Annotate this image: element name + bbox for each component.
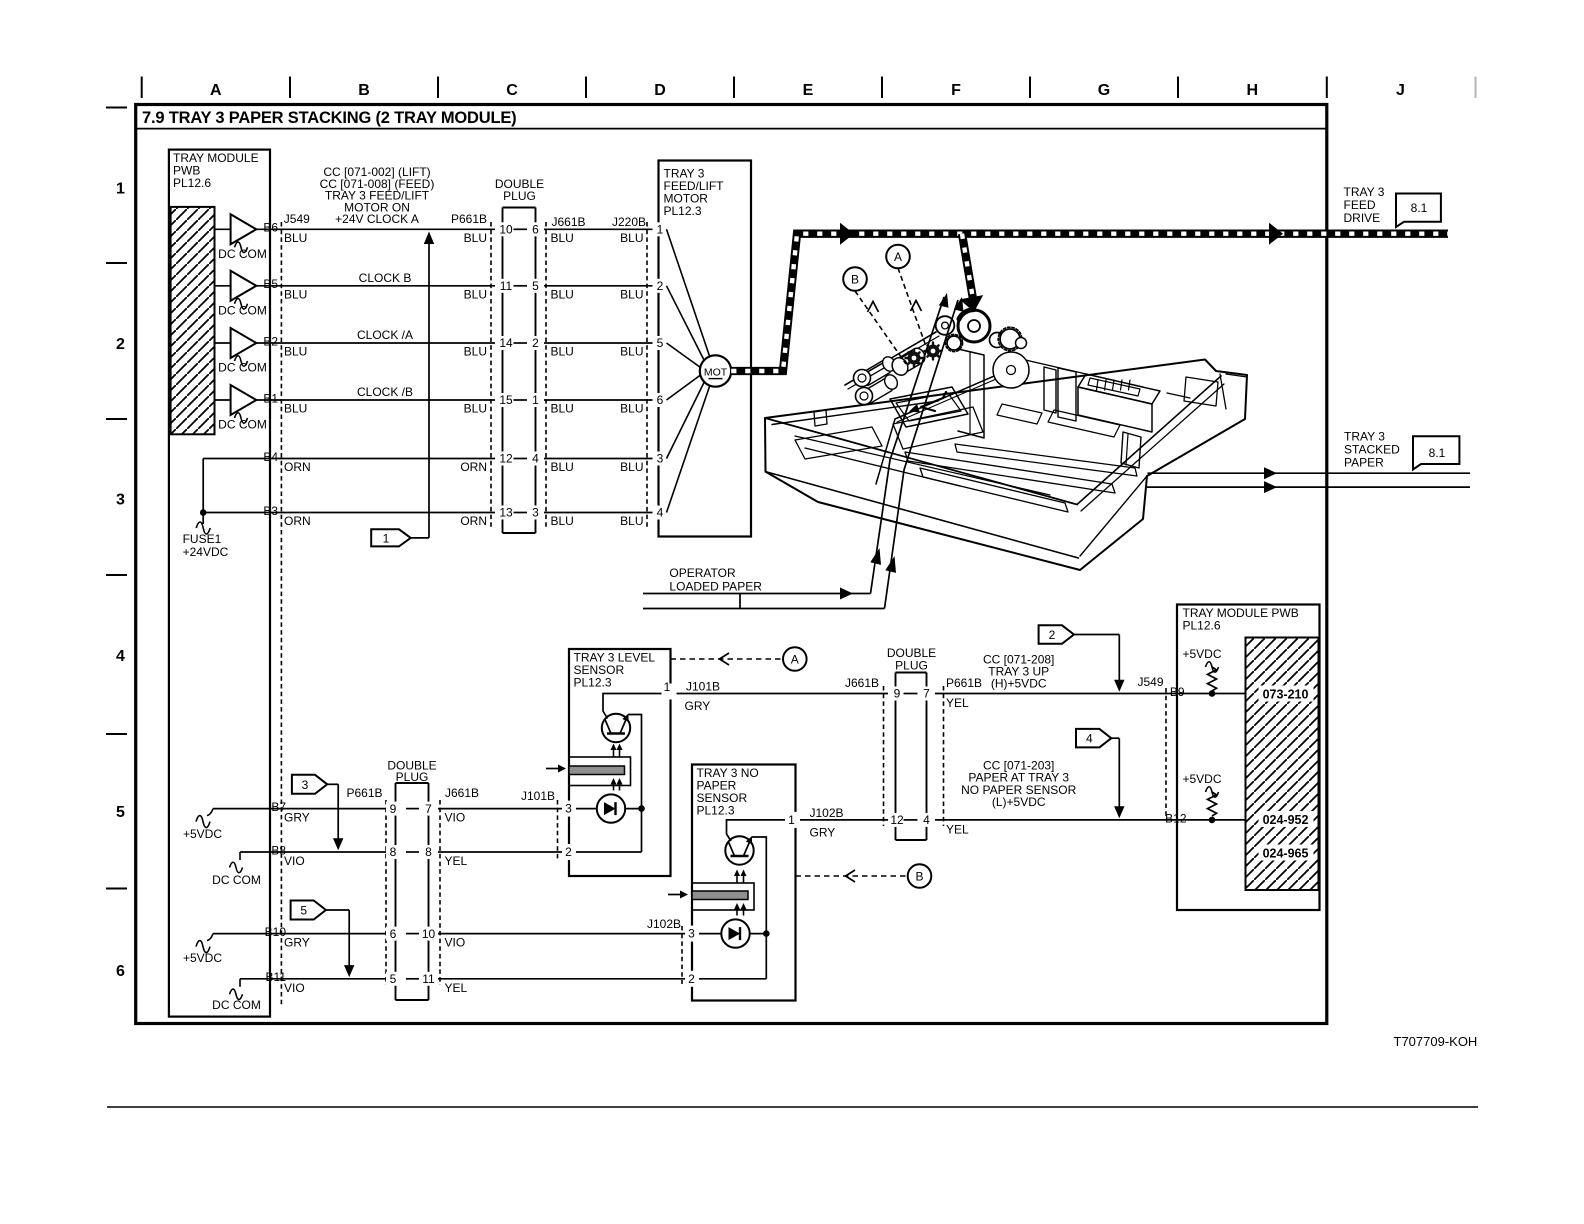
svg-text:ORN: ORN	[284, 460, 311, 474]
level sensor phototransistor	[602, 714, 630, 742]
svg-text:BLU: BLU	[551, 288, 574, 302]
title underline	[136, 128, 1327, 130]
floor back edge lines	[1008, 356, 1086, 374]
DC COM symbol under buffer B6	[235, 242, 248, 253]
hatched PWB area (right)	[1246, 638, 1319, 891]
svg-text:5: 5	[300, 904, 307, 918]
stacked paper arrows	[1264, 467, 1277, 479]
svg-text:+24VDC: +24VDC	[183, 545, 229, 559]
level sensor pin 2 internal wire	[569, 851, 642, 853]
fault code 073-210	[1259, 686, 1314, 702]
level sensor junction dot	[638, 805, 645, 812]
connector J102B dashed line (left)	[681, 926, 683, 984]
svg-text:B6: B6	[263, 221, 278, 235]
svg-text:2: 2	[657, 279, 664, 293]
floor pockets	[1048, 410, 1120, 437]
svg-text:2: 2	[1049, 628, 1056, 642]
svg-text:B1: B1	[263, 391, 278, 405]
svg-text:1: 1	[116, 181, 125, 198]
footer rule	[107, 1106, 1478, 1108]
svg-text:BLU: BLU	[620, 231, 643, 245]
svg-text:BLU: BLU	[464, 288, 487, 302]
double plug (upper)	[496, 210, 542, 531]
buffer amplifier driving B1	[215, 399, 231, 401]
connector J549 dashed line (left)	[280, 222, 282, 1006]
svg-text:BLU: BLU	[551, 514, 574, 528]
nudger roller 1	[854, 370, 871, 387]
DC COM symbol under buffer B1	[235, 413, 248, 424]
callout B circle at tray	[843, 267, 867, 291]
svg-text:5: 5	[116, 804, 125, 821]
svg-text:6: 6	[657, 393, 664, 407]
no paper sensor LED	[721, 919, 749, 947]
svg-text:YEL: YEL	[946, 696, 969, 710]
no paper sensor junction dot	[763, 930, 770, 937]
light arrows above bar (no paper sensor)	[736, 874, 738, 883]
double plug pins 8-8	[386, 845, 402, 859]
tray interior floor lines	[795, 436, 1050, 495]
svg-text:STACKED: STACKED	[1344, 443, 1400, 457]
svg-text:7: 7	[923, 687, 930, 701]
svg-text:3: 3	[116, 492, 125, 509]
belt arrowhead right	[1269, 223, 1283, 245]
junction dot at B3/fuse node	[200, 509, 207, 516]
svg-text:YEL: YEL	[946, 822, 969, 836]
gear train right	[990, 333, 1005, 348]
svg-text:GRY: GRY	[284, 936, 310, 950]
svg-text:DC COM: DC COM	[218, 418, 267, 432]
arrow from flag 3 down to B8 wire	[327, 783, 338, 785]
DC COM symbol at B11	[239, 979, 241, 987]
svg-text:ORN: ORN	[460, 514, 487, 528]
tray arrow plate	[890, 387, 968, 427]
svg-text:11: 11	[422, 972, 435, 986]
double plug pins 15-1	[495, 393, 516, 407]
arrow from flag 5 down to B11 wire	[326, 909, 349, 911]
svg-text:5: 5	[390, 972, 397, 986]
tray back rim inner lines	[772, 401, 938, 425]
motor pin 5	[653, 336, 668, 350]
svg-text:J549: J549	[1138, 675, 1164, 689]
svg-text:B3: B3	[263, 504, 278, 518]
svg-text:7: 7	[425, 802, 432, 816]
svg-text:LOADED PAPER: LOADED PAPER	[669, 580, 762, 594]
+5VDC source at B10	[207, 934, 213, 941]
svg-text:PL12.3: PL12.3	[697, 804, 735, 818]
tray 3 mechanical illustration	[765, 310, 1247, 570]
connector J661B dashed line (upper)	[545, 222, 547, 530]
arrow from flag 4 down to NO PAPER SENSOR wire	[1111, 737, 1119, 739]
level sensor pin numbers	[662, 684, 677, 700]
wire B11 DC COM to no-paper sensor pin 2	[240, 978, 692, 980]
svg-text:A: A	[894, 250, 902, 264]
svg-text:MOT: MOT	[704, 367, 728, 379]
double plug pins 12-4 (lower right)	[888, 813, 907, 827]
svg-text:VIO: VIO	[284, 981, 305, 995]
svg-text:YEL: YEL	[445, 854, 468, 868]
svg-text:6: 6	[116, 963, 125, 980]
svg-text:PLUG: PLUG	[895, 659, 928, 673]
support pillar under gears	[958, 349, 984, 438]
actuator arrow into level sensor	[546, 768, 559, 770]
flag box 8.1 feed drive	[1396, 194, 1441, 228]
tray front wall bottom edge	[766, 472, 1079, 558]
svg-text:BLU: BLU	[620, 345, 643, 359]
wire B3 net +24VDC	[203, 512, 658, 514]
light arrows below bar (no paper sensor)	[736, 907, 738, 916]
wire link B4-B3 to FUSE1	[202, 459, 204, 525]
svg-text:ORN: ORN	[460, 460, 487, 474]
svg-text:+5VDC: +5VDC	[1182, 647, 1221, 661]
svg-text:TRAY 3: TRAY 3	[1344, 185, 1385, 199]
callout B circle at no paper sensor	[908, 864, 932, 888]
feed roller shaft	[845, 332, 936, 385]
svg-text:P661B: P661B	[451, 212, 487, 226]
wire B5 net CLOCK B	[256, 285, 659, 287]
svg-text:8: 8	[390, 845, 397, 859]
tray floor racetrack channel	[893, 407, 983, 449]
svg-text:8.1: 8.1	[1411, 201, 1428, 215]
svg-text:1: 1	[657, 223, 664, 237]
svg-text:B: B	[915, 870, 923, 884]
svg-text:J101B: J101B	[686, 680, 720, 694]
svg-text:8: 8	[425, 845, 432, 859]
svg-text:ORN: ORN	[284, 514, 311, 528]
svg-text:+5VDC: +5VDC	[183, 827, 222, 841]
svg-text:1: 1	[532, 393, 539, 407]
svg-text:FUSE1: FUSE1	[183, 532, 222, 546]
svg-text:4: 4	[532, 452, 539, 466]
double plug pins 9-7 (lower right)	[888, 687, 907, 701]
wire B4 net +24VDC	[203, 458, 658, 460]
svg-text:8.1: 8.1	[1429, 446, 1446, 460]
no paper sensor pin 3 internal wire	[692, 933, 721, 935]
wire B8 DC COM to level sensor pin 2	[240, 851, 569, 853]
svg-text:J220B: J220B	[612, 215, 646, 229]
tray 3 level sensor box PL12.3	[569, 649, 671, 876]
double plug pins 13-3	[495, 506, 516, 520]
tray 3 stacked paper path lines	[1148, 472, 1471, 474]
svg-text:6: 6	[390, 927, 397, 941]
feed clutch gear (belt target)	[958, 310, 990, 342]
wire B2 net CLOCK /A	[256, 342, 659, 344]
svg-text:CLOCK B: CLOCK B	[359, 271, 412, 285]
motor pin 4	[653, 506, 668, 520]
double plug (lower left)	[389, 786, 435, 998]
tray module PWB box PL12.6 (right)	[1177, 605, 1320, 911]
svg-text:B2: B2	[263, 334, 278, 348]
flag 4 reference tag	[1076, 729, 1111, 748]
DC COM symbol under buffer B2	[235, 356, 248, 367]
svg-text:(H)+5VDC: (H)+5VDC	[991, 677, 1047, 691]
flag 1 reference tag	[371, 529, 411, 546]
right latch detail	[1121, 432, 1141, 468]
connector P661B dashed line (lower right)	[943, 686, 945, 826]
light arrows below bar	[613, 782, 615, 791]
svg-text:PAPER: PAPER	[1344, 456, 1384, 470]
svg-text:024-952: 024-952	[1263, 813, 1309, 827]
svg-text:10: 10	[499, 223, 513, 237]
flag box 8.1 stacked paper	[1413, 436, 1459, 469]
light arrows above bar	[613, 748, 615, 757]
belt arrowhead mid	[840, 223, 854, 245]
paper path bend diagonals into tray	[871, 297, 945, 594]
svg-text:C: C	[506, 82, 518, 99]
svg-text:3: 3	[302, 778, 309, 792]
svg-text:BLU: BLU	[284, 288, 307, 302]
torque limiter clutches (dark)	[908, 352, 921, 365]
svg-text:1: 1	[664, 680, 671, 694]
double plug pins 9-7	[386, 802, 402, 816]
svg-text:12: 12	[499, 452, 513, 466]
svg-text:B: B	[358, 82, 370, 99]
buffer amplifier driving B5	[215, 285, 231, 287]
no paper sensor emitter wire to pin 2	[752, 837, 766, 979]
double plug pins 5-11	[386, 972, 402, 986]
level sensor internal collector wire	[603, 694, 663, 719]
svg-text:DC COM: DC COM	[218, 361, 267, 375]
motor fan-in wires	[667, 229, 711, 357]
callout A circle at level sensor	[783, 647, 807, 671]
bent arrow symbol on plate	[921, 392, 946, 407]
svg-text:1: 1	[788, 813, 795, 827]
no paper sensor slot	[692, 883, 754, 910]
connector P661B dashed line (upper)	[490, 222, 492, 530]
svg-text:YEL: YEL	[445, 981, 468, 995]
level sensor LED	[597, 794, 625, 822]
svg-text:J102B: J102B	[810, 806, 844, 820]
svg-text:H: H	[1247, 82, 1259, 99]
svg-text:VIO: VIO	[445, 811, 466, 825]
svg-text:D: D	[654, 82, 666, 99]
svg-text:BLU: BLU	[620, 288, 643, 302]
svg-text:073-210: 073-210	[1263, 687, 1309, 701]
double plug (lower right)	[889, 675, 933, 837]
svg-text:BLU: BLU	[620, 402, 643, 416]
fuse FUSE1 +24VDC	[196, 522, 210, 534]
svg-text:CLOCK /B: CLOCK /B	[357, 385, 413, 399]
callout A circle at tray	[886, 245, 910, 269]
svg-text:BLU: BLU	[464, 231, 487, 245]
level sensor slot	[569, 757, 631, 786]
callout A dashed arrow at tray rollers	[898, 268, 928, 352]
flag 2 reference tag	[1039, 625, 1074, 644]
svg-text:G: G	[1098, 82, 1110, 99]
svg-text:B5: B5	[263, 277, 278, 291]
no paper sensor internal collector wire	[727, 820, 788, 841]
svg-text:TRAY 3: TRAY 3	[1344, 430, 1385, 444]
svg-text:+24V CLOCK A: +24V CLOCK A	[335, 212, 419, 226]
connector J661B dashed line (lower left)	[439, 800, 441, 985]
pick-up rod	[876, 370, 1008, 484]
shaft collar	[936, 316, 955, 335]
svg-text:9: 9	[390, 802, 397, 816]
svg-text:BLU: BLU	[551, 231, 574, 245]
no paper sensor pin 2 internal wire	[692, 978, 766, 980]
svg-text:3: 3	[688, 927, 695, 941]
rack detail on heel top	[1088, 378, 1140, 396]
motor pin 3	[653, 452, 668, 466]
arrow from flag 2 down to TRAY 3 UP wire	[1074, 634, 1119, 636]
row ruler ticks and numbers	[106, 107, 127, 109]
svg-text:2: 2	[116, 336, 125, 353]
DC COM symbol under buffer B5	[235, 299, 248, 310]
belt branch down to feed clutch	[962, 234, 974, 302]
svg-text:GRY: GRY	[284, 811, 310, 825]
actuator arrow into no paper sensor	[668, 894, 681, 896]
svg-text:DC COM: DC COM	[218, 247, 267, 261]
wire B1 net CLOCK /B	[256, 399, 659, 401]
svg-text:BLU: BLU	[284, 345, 307, 359]
svg-text:J102B: J102B	[647, 917, 681, 931]
tray right rim	[1077, 376, 1221, 505]
svg-text:J101B: J101B	[521, 789, 555, 803]
no paper sensor phototransistor	[725, 836, 753, 864]
svg-text:B4: B4	[263, 450, 278, 464]
svg-text:OPERATOR: OPERATOR	[669, 566, 736, 580]
svg-text:(L)+5VDC: (L)+5VDC	[992, 795, 1046, 809]
hatched PWB area (left)	[171, 207, 215, 434]
svg-text:P661B: P661B	[346, 786, 382, 800]
svg-text:4: 4	[923, 813, 930, 827]
svg-text:DC COM: DC COM	[218, 304, 267, 318]
fault code 024-952	[1259, 811, 1314, 827]
tray 3 feed/lift motor box PL12.3	[659, 161, 752, 537]
svg-text:BLU: BLU	[464, 345, 487, 359]
motor pin 2	[653, 279, 668, 293]
svg-text:J661B: J661B	[445, 786, 479, 800]
svg-text:11: 11	[500, 279, 513, 293]
svg-text:A: A	[210, 82, 222, 99]
connector J661B dashed line (lower right)	[883, 686, 885, 826]
flag 3 reference tag	[292, 775, 327, 794]
connector J220B dashed line (upper)	[646, 222, 648, 530]
svg-text:4: 4	[1086, 732, 1093, 746]
svg-text:J661B: J661B	[552, 215, 586, 229]
svg-text:FEED: FEED	[1344, 198, 1376, 212]
motor MOT circle	[700, 355, 731, 386]
+5VDC source at B7	[207, 809, 213, 816]
svg-text:A: A	[791, 653, 799, 667]
callout B dashed arrow at tray rollers	[855, 291, 906, 364]
svg-text:PL12.3: PL12.3	[574, 676, 612, 690]
svg-text:BLU: BLU	[551, 345, 574, 359]
double plug pins 10-6	[495, 222, 516, 236]
svg-text:GRY: GRY	[685, 699, 711, 713]
svg-text:7.9 TRAY 3 PAPER STACKING (2 T: 7.9 TRAY 3 PAPER STACKING (2 TRAY MODULE…	[142, 109, 516, 127]
lift idler disc	[993, 352, 1029, 388]
DC COM symbol at B8	[239, 852, 241, 860]
wire B6 net +24V CLOCK A	[256, 228, 659, 230]
wire B7 +5VDC to level sensor pin 3	[213, 808, 569, 810]
svg-text:5: 5	[532, 279, 539, 293]
svg-text:2: 2	[532, 336, 539, 350]
svg-text:F: F	[951, 82, 961, 99]
svg-text:1: 1	[383, 532, 390, 546]
tray outer body	[765, 360, 1247, 571]
svg-text:+5VDC: +5VDC	[183, 951, 222, 965]
flag 5 reference tag	[291, 901, 326, 920]
svg-text:6: 6	[532, 223, 539, 237]
svg-text:+5VDC: +5VDC	[1182, 772, 1221, 786]
svg-text:B: B	[851, 273, 859, 287]
connector P661B dashed line (lower left)	[385, 800, 387, 985]
svg-text:J: J	[1396, 82, 1405, 99]
right raised heel box	[1078, 374, 1160, 404]
svg-text:PL12.6: PL12.6	[173, 176, 211, 190]
wall rib slabs	[1044, 367, 1056, 413]
level sensor emitter wire to pin 2	[629, 715, 642, 853]
svg-text:PLUG: PLUG	[503, 189, 536, 203]
svg-text:CLOCK /A: CLOCK /A	[357, 328, 413, 342]
nudger roller 2	[856, 388, 873, 405]
tray front wall top edge	[765, 418, 1077, 505]
double plug pins 11-5	[495, 279, 516, 293]
level sensor output wire pin 1 J101B GRY	[671, 693, 1246, 695]
fault code 024-965	[1259, 845, 1314, 861]
no paper sensor pin numbers	[785, 812, 800, 828]
callout A dashed arrow at level sensor	[671, 658, 784, 660]
svg-text:BLU: BLU	[551, 402, 574, 416]
drive belt path from motor to tray 3 feed drive	[731, 234, 1448, 371]
right end box	[1184, 377, 1218, 406]
no paper sensor output wire pin 1 J102B GRY	[796, 819, 1246, 821]
svg-text:BLU: BLU	[551, 460, 574, 474]
svg-text:VIO: VIO	[445, 936, 466, 950]
svg-text:2: 2	[688, 972, 695, 986]
svg-text:PL12.3: PL12.3	[664, 204, 702, 218]
tray right face bottom edge	[1080, 476, 1147, 556]
motor pin 6	[653, 393, 668, 407]
feed roller	[897, 349, 915, 360]
svg-text:5: 5	[657, 336, 664, 350]
svg-text:VIO: VIO	[284, 854, 305, 868]
operator loaded paper path lines	[643, 593, 871, 595]
buffer amplifier driving B6	[215, 228, 231, 230]
tray module PWB box PL12.6 (left)	[169, 150, 270, 1017]
right tab bracket lines	[1220, 374, 1226, 409]
svg-text:PLUG: PLUG	[396, 770, 429, 784]
svg-text:DC COM: DC COM	[212, 998, 261, 1012]
svg-text:E: E	[803, 82, 814, 99]
svg-text:GRY: GRY	[810, 826, 836, 840]
buffer amplifier driving B2	[215, 342, 231, 344]
svg-text:DRIVE: DRIVE	[1344, 211, 1381, 225]
connector J101B dashed line	[557, 800, 559, 860]
double plug pins 14-2	[495, 336, 516, 350]
level sensor actuator bar	[569, 766, 625, 775]
svg-text:13: 13	[499, 506, 513, 520]
svg-text:P661B: P661B	[946, 676, 982, 690]
tray 3 no paper sensor box PL12.3	[692, 765, 796, 1001]
svg-text:BLU: BLU	[284, 231, 307, 245]
svg-text:DC COM: DC COM	[212, 873, 261, 887]
column ruler ticks and letters	[141, 77, 143, 99]
left tab on back rim	[814, 410, 827, 426]
connector J549 dashed line (right)	[1165, 688, 1167, 820]
wire from flag 1 up to +24V CLOCK A wire	[411, 537, 429, 539]
svg-text:10: 10	[422, 927, 436, 941]
paper path arrows	[840, 588, 853, 600]
svg-text:T707709-KOH: T707709-KOH	[1394, 1034, 1478, 1049]
callout B dashed arrow at no paper sensor	[796, 875, 908, 877]
svg-text:3: 3	[532, 506, 539, 520]
small gear below clutch	[947, 336, 961, 350]
svg-text:15: 15	[499, 393, 513, 407]
double plug pins 12-4	[495, 452, 516, 466]
double plug pins 6-10	[386, 927, 402, 941]
svg-text:9: 9	[894, 687, 901, 701]
